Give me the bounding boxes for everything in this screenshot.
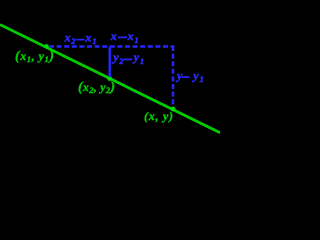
- node (x2,y2) dot: [107, 76, 112, 81]
- label x2-x1: [64, 29, 204, 84]
- wire: vertical solid blue: [108, 47, 110, 78]
- node (x1,y1) dot: [44, 44, 49, 49]
- wire: horizontal dashed blue: [49, 45, 174, 47]
- wire: vertical dashed blue: [172, 46, 174, 106]
- wire: green sloped line: [0, 25, 220, 133]
- svg-text:x: x: [110, 29, 117, 43]
- svg-text:y: y: [175, 68, 183, 82]
- svg-text:(x2, y2): (x2, y2): [78, 80, 115, 95]
- node (x,y) dot: [171, 107, 176, 112]
- svg-text:(x, y): (x, y): [144, 109, 173, 123]
